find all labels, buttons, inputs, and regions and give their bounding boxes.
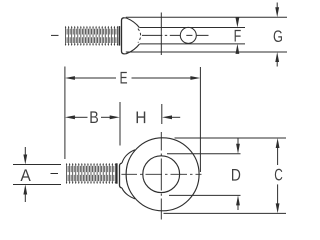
centerline dash left of top shank bbox=[51, 34, 59, 36]
label A bbox=[20, 169, 30, 181]
threaded shank (front view) bbox=[67, 164, 116, 182]
dimension A arrows bbox=[23, 155, 27, 165]
extension line at eye center (H right) bbox=[161, 104, 163, 124]
small hole circle (top view) bbox=[180, 27, 196, 43]
eye plate edge / F extension line top bbox=[140, 27, 245, 29]
dimension E line and arrows bbox=[65, 76, 75, 80]
vertical centerline (front view) bbox=[160, 132, 162, 220]
collar outline / G extension line bottom bbox=[126, 51, 287, 53]
extension line at thread start (E/B left) bbox=[64, 67, 66, 160]
label F bbox=[235, 30, 241, 42]
dimension C extension line top bbox=[175, 137, 287, 139]
label G bbox=[274, 30, 282, 42]
vertical edge line on collar boss bbox=[160, 13, 162, 56]
shoulder bell (top view) bbox=[122, 18, 125, 54]
dimension H arrow bbox=[162, 115, 172, 119]
extension line at eye right (E right) bbox=[199, 67, 201, 172]
collar outline / G extension line top bbox=[126, 16, 287, 18]
dimension D extension line top bbox=[167, 153, 241, 155]
eye outer circle bbox=[126, 138, 199, 211]
dimension C arrows bbox=[276, 138, 280, 148]
extension line at thread end (B right) bbox=[119, 102, 121, 146]
label H bbox=[137, 111, 146, 123]
eye plate edge / F extension line bottom bbox=[140, 43, 245, 45]
shoulder collar (front view) bbox=[120, 163, 122, 188]
dimension D extension line bottom bbox=[169, 194, 241, 196]
horizontal centerline (top view) bbox=[142, 34, 209, 36]
horizontal centerline (front view) bbox=[121, 173, 201, 175]
label E bbox=[121, 72, 128, 84]
label C bbox=[275, 169, 283, 181]
dimension D arrows bbox=[236, 144, 240, 154]
label B bbox=[90, 111, 98, 123]
dimension G arrows bbox=[275, 7, 279, 17]
label D bbox=[232, 169, 240, 181]
centerline dash left of bottom shank bbox=[51, 173, 59, 175]
dimension A extension lines bbox=[13, 164, 61, 166]
hidden fillet arc (dashed) at bell waist bbox=[138, 29, 141, 43]
dimension B line and arrows bbox=[65, 115, 75, 119]
eye inner circle (hole) bbox=[143, 156, 180, 193]
dimension F arrows bbox=[236, 18, 240, 28]
dimension C extension line bottom bbox=[164, 212, 287, 214]
threaded shank (top view) bbox=[66, 27, 119, 44]
